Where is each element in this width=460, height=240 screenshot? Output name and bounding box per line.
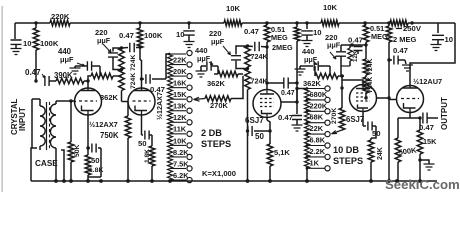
svg-text:CASE: CASE xyxy=(35,159,58,168)
label 50 V3 xyxy=(255,132,264,141)
svg-text:20K: 20K xyxy=(173,67,187,76)
wire right frame xyxy=(413,23,455,63)
label 440 uuF first xyxy=(58,47,85,66)
node B+ 250V xyxy=(410,21,413,24)
svg-text:2MEG: 2MEG xyxy=(272,43,293,52)
node V2 plate branch xyxy=(140,77,143,80)
resistor 1.8K V1 xyxy=(85,155,91,181)
resistor 10K second xyxy=(321,20,339,26)
svg-text:0.47: 0.47 xyxy=(393,46,408,55)
capacitor 50 V3 xyxy=(246,126,270,136)
svg-text:50: 50 xyxy=(91,156,100,165)
capacitor 0.47 input xyxy=(45,76,49,86)
label 724K pair one xyxy=(130,55,137,89)
wire V5 grid xyxy=(389,99,397,101)
label 10 DB STEPS xyxy=(333,145,363,166)
wire V2 grid xyxy=(122,101,129,103)
wiper 2DB arrow xyxy=(194,97,206,101)
resistor 270K second xyxy=(339,80,345,130)
label 270K second xyxy=(331,108,338,124)
svg-text:10: 10 xyxy=(445,35,454,44)
wire 440 to junction xyxy=(92,66,100,76)
svg-text:2 MEG: 2 MEG xyxy=(393,35,417,44)
svg-text:270K: 270K xyxy=(210,101,229,110)
wire to V4 grid xyxy=(340,74,363,84)
tube V3 6SJ7 xyxy=(253,90,281,118)
capacitor 50 cathode V1 xyxy=(88,144,101,178)
svg-text:½12AX7: ½12AX7 xyxy=(89,120,118,129)
svg-text:SeekIC.com: SeekIC.com xyxy=(385,177,460,192)
resistor 362K third xyxy=(315,66,344,79)
svg-text:220K: 220K xyxy=(51,12,70,21)
capacitor 220uuF parallel xyxy=(231,46,248,69)
svg-text:MEG: MEG xyxy=(371,32,388,41)
label 440 uuF second xyxy=(195,46,213,65)
labels 10DB ladder values xyxy=(310,90,328,167)
label 0.47 feedback1 xyxy=(281,90,295,97)
wire plate to 047 gnd xyxy=(296,102,298,114)
contacts 2DB switch xyxy=(187,50,192,182)
transformer core xyxy=(47,102,50,150)
svg-text:16K: 16K xyxy=(173,79,187,88)
wire 724K chain down xyxy=(247,131,249,181)
wire 100K to 390K xyxy=(49,80,56,82)
label 6SJ7 second xyxy=(346,115,364,124)
ground 440 third xyxy=(295,66,306,75)
svg-text:250V: 250V xyxy=(403,24,422,33)
svg-text:6.8K: 6.8K xyxy=(310,136,326,145)
resistor 15K xyxy=(417,116,423,161)
label 5.1K xyxy=(274,148,290,157)
resistor 362K first xyxy=(88,73,122,81)
label half 12AX7 V1 xyxy=(89,120,118,129)
resistor 390K xyxy=(56,78,84,84)
svg-text:68K: 68K xyxy=(310,113,324,122)
svg-text:MEG: MEG xyxy=(271,33,288,42)
resistor 1.8K V2 xyxy=(149,146,155,181)
ground 0.47 bypass1 xyxy=(292,125,303,131)
capacitor 220uuF first xyxy=(108,48,122,70)
wire 10DB feed xyxy=(295,87,307,102)
label 2MEG first xyxy=(272,43,293,52)
resistor 100K second xyxy=(137,21,143,48)
resistor 724K c2 xyxy=(363,75,369,100)
capacitor 10 input xyxy=(11,40,22,48)
svg-text:10: 10 xyxy=(176,30,185,39)
label 50K xyxy=(74,144,81,157)
label 362K third xyxy=(303,79,322,88)
wire V3 plate stub xyxy=(281,101,297,103)
svg-text:0.47: 0.47 xyxy=(348,36,363,45)
label K=X1000 xyxy=(202,169,236,178)
label OUTPUT xyxy=(440,97,449,130)
capacitor 0.47 stage1 xyxy=(122,43,141,53)
label 500K xyxy=(398,145,418,156)
label 6SJ7 first xyxy=(245,116,264,125)
label 0.47 stage2 xyxy=(244,27,259,36)
svg-text:0.47: 0.47 xyxy=(25,68,41,77)
label 0.47 coupling2 xyxy=(150,85,165,94)
label 220uuF second xyxy=(209,29,231,55)
svg-text:362K: 362K xyxy=(303,79,322,88)
capacitor 220uuF third cap xyxy=(336,45,346,76)
capacitor 10 fourth xyxy=(432,23,444,44)
ground input cap xyxy=(11,49,22,55)
wire 270K to grid net xyxy=(231,76,243,99)
label 12K stage3 xyxy=(352,50,359,62)
svg-text:50: 50 xyxy=(255,132,264,141)
capacitor 50 V4 xyxy=(368,122,376,139)
label 10 second xyxy=(176,30,185,39)
svg-text:724K: 724K xyxy=(251,52,269,61)
svg-text:10K: 10K xyxy=(226,4,241,13)
ground 10 third xyxy=(302,41,313,47)
resistor 2MEG second xyxy=(386,23,392,100)
label 724K b2 xyxy=(251,77,269,86)
svg-text:1K: 1K xyxy=(310,158,320,167)
label 0.47 stage1 xyxy=(119,31,134,40)
label 0.47 bypass1 xyxy=(278,113,293,122)
resistor chain 2DB ladder xyxy=(168,53,173,181)
svg-text:22K: 22K xyxy=(173,55,187,64)
ground coupling4 xyxy=(402,60,413,71)
capacitor 440uuF third xyxy=(300,61,330,71)
capacitor 10 third xyxy=(301,21,313,40)
svg-text:K=X1,000: K=X1,000 xyxy=(202,169,236,178)
label 2MEG second xyxy=(393,35,417,44)
resistor 0.51MEG first xyxy=(264,23,270,47)
watermark SeekIC.com xyxy=(385,177,460,192)
resistor 724K a2 xyxy=(119,68,125,102)
wire secondary to grid xyxy=(56,100,75,102)
resistor 724K b2 xyxy=(245,67,251,131)
wire 2meg2 drop xyxy=(388,100,390,182)
node 2meg2 top xyxy=(387,21,390,24)
svg-text:15K: 15K xyxy=(173,90,187,99)
transformer secondary xyxy=(50,101,56,181)
wire V4 plate stub xyxy=(377,97,390,99)
svg-text:μμF: μμF xyxy=(60,55,74,64)
label 724K b1 xyxy=(251,52,269,61)
shield CASE box xyxy=(31,148,64,181)
label 220K xyxy=(51,12,70,21)
node 051meg2 top xyxy=(363,21,366,24)
label CRYSTAL INPUT xyxy=(10,98,27,135)
svg-text:50: 50 xyxy=(138,139,147,148)
svg-text:10 DB: 10 DB xyxy=(333,145,359,155)
label 440 uuF third xyxy=(302,47,318,65)
wire V4 plate node xyxy=(387,96,390,99)
label 0.51MEG second xyxy=(370,24,388,41)
svg-text:270K: 270K xyxy=(331,108,338,124)
svg-text:½12AX7: ½12AX7 xyxy=(155,92,164,120)
label 220uuF first xyxy=(95,28,111,53)
capacitor 0.47 stage2 xyxy=(248,42,269,52)
svg-text:STEPS: STEPS xyxy=(333,156,363,166)
wire V2 cathode xyxy=(142,115,144,135)
label 362K first xyxy=(100,93,119,102)
resistor 362K second xyxy=(214,71,243,77)
resistor 50K grid xyxy=(68,101,74,181)
svg-text:362K: 362K xyxy=(100,93,119,102)
capacitor 0.47 stage3 xyxy=(341,43,368,54)
tube V5 half 12AU7 xyxy=(397,86,424,113)
label 10 input xyxy=(23,39,32,48)
wire V4 cathode xyxy=(363,112,366,127)
svg-text:6SJ7: 6SJ7 xyxy=(245,116,264,125)
capacitor 50 cathode V2 xyxy=(145,131,152,147)
wires 10DB taps xyxy=(306,87,325,170)
resistor 724K a1 xyxy=(119,46,125,69)
svg-text:362K: 362K xyxy=(207,79,226,88)
label 10K second xyxy=(323,3,338,12)
svg-text:1.8K: 1.8K xyxy=(144,149,151,163)
node grid V1 xyxy=(69,99,72,102)
capacitor 0.47 coupling4 xyxy=(389,56,405,65)
wire V1 cathode down xyxy=(87,115,89,155)
wire 390K to plate node xyxy=(84,80,88,82)
svg-text:750K: 750K xyxy=(100,131,119,140)
label 220uuF third xyxy=(325,33,341,59)
tube V1 half 12AX7 xyxy=(75,88,102,115)
svg-text:220K: 220K xyxy=(310,101,328,110)
svg-text:12K: 12K xyxy=(173,113,187,122)
junction dots bottom bus xyxy=(54,179,422,183)
resistor 724K b1 xyxy=(245,44,251,67)
resistor 724K c1 xyxy=(363,47,369,75)
capacitor 440uuF second xyxy=(207,61,218,74)
svg-text:50K: 50K xyxy=(74,144,81,157)
capacitor 0.47 coupling2 xyxy=(142,74,167,84)
node 390K left xyxy=(34,79,37,82)
wire V5 cathode xyxy=(409,112,411,118)
label 2 DB STEPS xyxy=(201,128,231,149)
label 0.51MEG first xyxy=(271,25,288,42)
svg-text:μμF: μμF xyxy=(211,37,225,46)
scan edge line xyxy=(2,6,3,192)
ground 10 fourth xyxy=(431,45,442,51)
label 270K first xyxy=(210,101,229,110)
node V4 coupling xyxy=(387,58,390,61)
ground output xyxy=(420,160,435,170)
resistor chain 10DB ladder xyxy=(305,89,310,182)
svg-text:12K: 12K xyxy=(352,50,359,62)
label 10K third xyxy=(396,24,422,33)
label 24K xyxy=(377,147,384,160)
wire top B+ bus xyxy=(15,22,455,24)
resistor 10K third xyxy=(390,20,408,26)
wire to ladder1 top xyxy=(166,54,170,79)
svg-text:50: 50 xyxy=(372,129,381,138)
svg-text:μμF: μμF xyxy=(327,41,341,50)
wiper 10DB arrow xyxy=(332,130,343,134)
label 100K second xyxy=(144,31,163,40)
svg-text:10: 10 xyxy=(313,28,322,37)
label half 12AU7 xyxy=(413,77,442,86)
node 100K2 bottom xyxy=(138,45,141,48)
svg-text:724K 724K: 724K 724K xyxy=(130,55,137,89)
label 50 V4 xyxy=(372,129,381,138)
resistor 270K first xyxy=(205,96,231,102)
capacitor 440uuF first xyxy=(87,61,91,71)
label 0.47 input xyxy=(25,68,45,78)
wire V5 plate up xyxy=(410,63,413,86)
wires 2DB taps xyxy=(170,54,186,180)
transformer primary xyxy=(32,99,45,150)
wire V3 cathode xyxy=(267,117,270,131)
svg-text:10K: 10K xyxy=(323,3,338,12)
svg-text:10: 10 xyxy=(23,39,32,48)
label 0.47 stage3 xyxy=(348,36,363,45)
svg-text:INPUT: INPUT xyxy=(18,107,27,131)
svg-text:½12AU7: ½12AU7 xyxy=(413,77,442,86)
resistor 100K first xyxy=(33,23,39,81)
resistor 24K xyxy=(368,138,374,181)
resistor 10K first xyxy=(224,20,242,26)
resistor 220K xyxy=(50,20,70,26)
svg-text:0.47: 0.47 xyxy=(244,27,259,36)
wire top-left corner xyxy=(14,23,16,39)
svg-text:10K: 10K xyxy=(173,136,187,145)
svg-text:μμF: μμF xyxy=(97,36,111,45)
svg-text:2.2K: 2.2K xyxy=(310,147,326,156)
svg-text:15K: 15K xyxy=(423,137,437,146)
labels 2DB ladder values xyxy=(173,55,189,179)
node V3 plate xyxy=(295,41,298,104)
svg-text:100K: 100K xyxy=(144,31,163,40)
svg-text:5,1K: 5,1K xyxy=(274,148,290,157)
capacitor 0.47 output xyxy=(410,113,438,124)
wire V1 grid xyxy=(75,101,77,103)
label 100K first xyxy=(40,39,59,48)
svg-text:0.47: 0.47 xyxy=(278,113,293,122)
svg-text:390K: 390K xyxy=(54,71,73,80)
label 50 cathode V2 xyxy=(138,139,147,148)
resistor 12K stage3 xyxy=(341,45,352,66)
resistor 5.1K xyxy=(267,129,273,181)
label 390K xyxy=(54,71,73,80)
label 15K xyxy=(423,137,437,146)
node V1 plate xyxy=(86,79,89,82)
svg-text:0.47: 0.47 xyxy=(281,90,295,97)
label 750K xyxy=(100,131,119,140)
svg-text:STEPS: STEPS xyxy=(201,139,231,149)
svg-text:11K: 11K xyxy=(173,125,187,134)
label 10 third xyxy=(313,28,322,37)
svg-text:0.47: 0.47 xyxy=(419,123,434,132)
label 10 fourth xyxy=(445,35,454,44)
svg-text:24K: 24K xyxy=(377,147,384,160)
tube V4 6SJ7 xyxy=(350,85,377,112)
wire V2 plate vertical xyxy=(140,48,142,89)
svg-text:1.8K: 1.8K xyxy=(89,167,103,174)
label 362K second xyxy=(207,79,226,88)
ground 440 second xyxy=(196,66,207,77)
label 10K first xyxy=(226,4,241,13)
capacitor 0.47 feedback1 xyxy=(267,78,297,89)
label CASE xyxy=(35,159,58,168)
label 1.8K V1 xyxy=(89,167,103,174)
svg-text:6SJ7: 6SJ7 xyxy=(346,115,364,124)
svg-text:100K: 100K xyxy=(40,39,59,48)
label 50 cathode V1 xyxy=(91,156,100,165)
wire 15K to bus xyxy=(419,160,421,181)
capacitor 10 second xyxy=(183,21,195,41)
node 051meg top xyxy=(265,21,268,24)
wire V3 topcap xyxy=(265,47,268,90)
svg-text:OUTPUT: OUTPUT xyxy=(440,97,449,130)
capacitor 0.47 bypass1 xyxy=(292,116,302,125)
label 0.47 output xyxy=(419,123,434,132)
svg-text:13K: 13K xyxy=(173,102,187,111)
resistor 500K xyxy=(395,118,410,181)
ground 10 second xyxy=(184,42,195,48)
contacts 10DB switch xyxy=(325,86,330,171)
resistor 2MEG first xyxy=(294,21,300,41)
wire V1 plate up xyxy=(87,81,89,88)
label 0.47 coupling4 xyxy=(393,46,408,55)
tube V2 half 12AX7 xyxy=(128,88,155,115)
svg-text:0.47: 0.47 xyxy=(119,31,134,40)
node V1 cathode xyxy=(86,146,89,149)
svg-text:22K: 22K xyxy=(310,124,324,133)
svg-text:680K: 680K xyxy=(310,90,328,99)
ground 440 first xyxy=(70,66,88,74)
svg-text:μμF: μμF xyxy=(197,54,211,63)
label half 12AX7 V2 xyxy=(155,92,164,120)
svg-text:2 DB: 2 DB xyxy=(201,128,222,138)
node 100K top xyxy=(34,21,37,24)
resistor 750K xyxy=(125,102,131,182)
wire bottom bus xyxy=(31,180,437,182)
label 1.8K V2 xyxy=(144,149,151,163)
resistor 0.51MEG second xyxy=(363,23,369,47)
label 724K c pair xyxy=(367,59,374,93)
